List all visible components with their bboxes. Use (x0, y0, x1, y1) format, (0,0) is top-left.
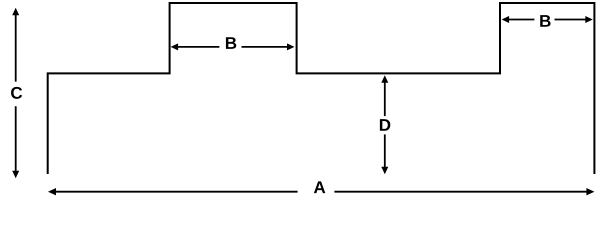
dimension arrow D (vertical, middle) (381, 75, 388, 174)
stepped profile outline (48, 3, 595, 174)
dimension arrow A (horizontal, bottom) (48, 188, 594, 195)
label B (right tooth) (540, 15, 550, 27)
label C (11, 87, 22, 99)
label A (314, 181, 325, 193)
label D (380, 119, 390, 131)
dimension arrow B (left tooth) (171, 43, 295, 50)
label B (left tooth) (226, 37, 236, 49)
dimension arrow B (right tooth) (502, 16, 593, 23)
dimension arrow C (vertical, left) (12, 8, 19, 178)
